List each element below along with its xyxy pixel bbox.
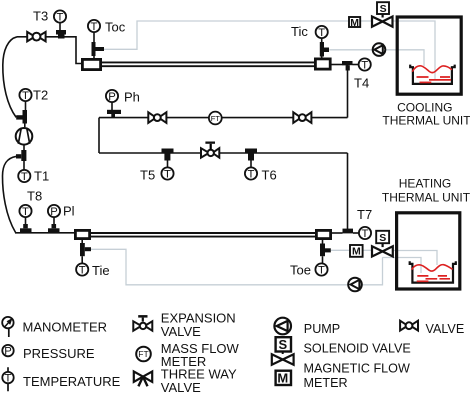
- svg-text:VALVE: VALVE: [161, 380, 201, 394]
- svg-text:T4: T4: [354, 76, 369, 91]
- svg-text:Ph: Ph: [124, 89, 140, 104]
- svg-text:THERMAL UNIT: THERMAL UNIT: [382, 114, 470, 128]
- svg-text:T5: T5: [140, 168, 155, 183]
- svg-text:T1: T1: [34, 169, 49, 184]
- svg-text:T: T: [91, 21, 98, 33]
- svg-text:S: S: [379, 232, 386, 244]
- svg-text:METER: METER: [304, 376, 348, 390]
- svg-text:Tie: Tie: [92, 263, 110, 278]
- svg-text:Toc: Toc: [105, 20, 126, 35]
- svg-text:T: T: [362, 228, 369, 240]
- svg-text:HEATING: HEATING: [399, 176, 451, 190]
- svg-text:T: T: [22, 90, 29, 102]
- svg-text:T: T: [57, 12, 64, 24]
- svg-text:T8: T8: [27, 189, 42, 204]
- svg-text:TEMPERATURE: TEMPERATURE: [23, 374, 121, 389]
- svg-text:FT: FT: [211, 114, 221, 123]
- svg-text:T: T: [361, 60, 368, 72]
- svg-text:S: S: [278, 337, 287, 352]
- svg-text:M: M: [277, 370, 288, 385]
- svg-text:PUMP: PUMP: [304, 322, 340, 336]
- svg-text:MAGNETIC FLOW: MAGNETIC FLOW: [304, 362, 410, 376]
- svg-text:MANOMETER: MANOMETER: [23, 320, 108, 335]
- svg-text:M: M: [352, 246, 361, 258]
- svg-text:T: T: [5, 373, 12, 385]
- svg-text:T2: T2: [33, 87, 48, 102]
- svg-text:VALVE: VALVE: [426, 322, 465, 336]
- svg-text:T: T: [21, 171, 28, 183]
- svg-text:T: T: [318, 265, 325, 277]
- svg-text:T7: T7: [357, 207, 372, 222]
- svg-text:T: T: [248, 169, 255, 181]
- svg-text:Toe: Toe: [290, 263, 311, 278]
- svg-text:P: P: [50, 206, 58, 218]
- svg-text:THERMAL UNIT: THERMAL UNIT: [382, 191, 470, 205]
- svg-text:T: T: [22, 206, 29, 218]
- svg-text:FT: FT: [138, 349, 148, 359]
- svg-text:COOLING: COOLING: [397, 100, 452, 114]
- svg-text:Pl: Pl: [63, 204, 75, 219]
- svg-text:P: P: [4, 346, 12, 358]
- svg-text:T3: T3: [33, 8, 48, 23]
- svg-text:VALVE: VALVE: [161, 324, 201, 339]
- svg-text:T6: T6: [262, 168, 277, 183]
- svg-text:S: S: [380, 3, 387, 15]
- svg-text:T: T: [318, 27, 325, 39]
- svg-text:T: T: [164, 169, 171, 181]
- svg-text:P: P: [108, 91, 116, 103]
- svg-text:PRESSURE: PRESSURE: [23, 346, 95, 361]
- svg-text:Tic: Tic: [291, 24, 308, 39]
- svg-text:M: M: [350, 17, 359, 29]
- svg-text:SOLENOID VALVE: SOLENOID VALVE: [304, 342, 411, 356]
- svg-text:T: T: [79, 265, 86, 277]
